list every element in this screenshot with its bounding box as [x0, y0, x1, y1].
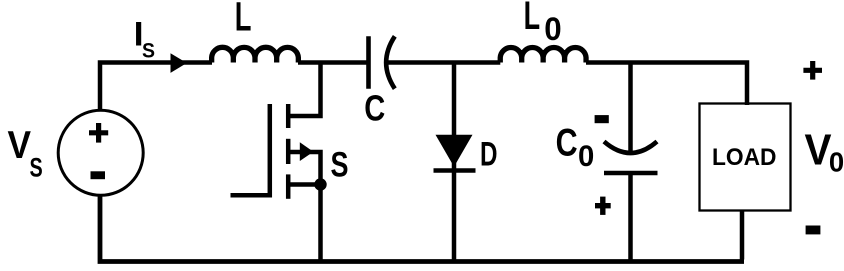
svg-text:0: 0 [829, 147, 844, 178]
svg-text:0: 0 [544, 11, 561, 47]
label LO [524, 0, 562, 47]
MOSFET drain wire from top wire [288, 63, 321, 117]
current arrow IS [171, 53, 187, 73]
capacitor CO top wire [628, 63, 633, 152]
plus label at LOAD top right [803, 61, 822, 80]
wire: inductor LO to LOAD top corner [586, 63, 747, 106]
diode branch wire [452, 63, 457, 260]
svg-text:S: S [30, 152, 43, 182]
voltage source minus sign [91, 171, 106, 179]
svg-text:C: C [364, 88, 385, 129]
diode D cathode bar [434, 168, 476, 173]
CO plus label [595, 197, 611, 215]
wire: inductor L to capacitor C [298, 60, 367, 65]
capacitor CO curved plate [604, 142, 657, 154]
capacitor C left plate [366, 36, 371, 88]
bottom wire with left vertical from source [100, 195, 744, 262]
wire: CO to bottom wire [628, 172, 633, 260]
svg-text:LOAD: LOAD [712, 145, 777, 171]
label VO [805, 126, 844, 177]
svg-text:C: C [556, 122, 578, 165]
svg-text:0: 0 [578, 140, 594, 173]
wire: LOAD bottom to bottom wire [740, 211, 745, 260]
svg-text:V: V [8, 124, 32, 167]
CO minus label [595, 115, 609, 123]
svg-text:S: S [331, 145, 349, 185]
label VS [8, 124, 43, 182]
wire: MOSFET source down to bottom wire [318, 185, 323, 260]
svg-text:D: D [480, 136, 498, 174]
label IS [134, 16, 155, 63]
LOAD box [700, 104, 791, 211]
junction dot at MOSFET source [314, 178, 326, 190]
inductor L [212, 47, 299, 62]
svg-text:L: L [235, 0, 252, 40]
capacitor C right curved plate [386, 36, 395, 88]
svg-text:V: V [805, 126, 832, 174]
capacitor CO bottom plate [604, 171, 658, 176]
svg-text:L: L [524, 0, 541, 38]
wire: capacitor C to LOAD top corner [388, 60, 500, 65]
transistor S (MOSFET) [231, 104, 321, 199]
minus label at LOAD bottom right [806, 226, 821, 235]
transistor S body arrow [300, 142, 314, 161]
label CO [556, 122, 595, 173]
inductor LO [500, 47, 586, 62]
diode D triangle [436, 135, 473, 167]
wire: source top to top-left corner to inductor L [100, 63, 212, 111]
svg-text:S: S [142, 39, 155, 62]
voltage source VS circle [58, 110, 143, 195]
voltage source plus sign [89, 123, 108, 143]
